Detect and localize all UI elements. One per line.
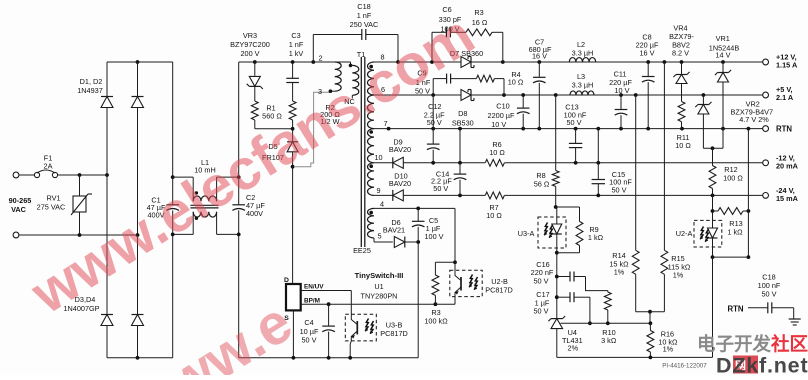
svg-text:D8: D8 (458, 109, 467, 118)
+5V rail (374, 94, 461, 96)
wire primary bottom rail (239, 357, 419, 359)
opto U2-B (450, 270, 482, 296)
svg-text:10 Ω: 10 Ω (489, 148, 505, 157)
wire snubber2 left leg (432, 79, 434, 95)
zener VR3 (254, 62, 256, 76)
svg-text:C10: C10 (496, 102, 509, 111)
capacitor C10 (522, 95, 524, 108)
wire R13 right col (747, 211, 749, 257)
svg-text:1%: 1% (614, 268, 625, 277)
diode D8 (470, 90, 472, 101)
svg-text:D1, D2: D1, D2 (80, 77, 103, 86)
svg-text:50 V: 50 V (433, 184, 448, 193)
capacitor C12 column (432, 95, 434, 129)
diode D6 (374, 241, 393, 243)
+12V rail (374, 61, 461, 63)
resistor R3 (snubber) (466, 29, 492, 36)
svg-text:3.3 µH: 3.3 µH (572, 49, 594, 58)
resistor R14 column (635, 95, 637, 250)
capacitor C14 column (459, 129, 461, 174)
svg-text:1 nF: 1 nF (357, 11, 372, 20)
svg-text:TNY280PN: TNY280PN (361, 292, 398, 301)
svg-text:16 Ω: 16 Ω (472, 18, 488, 27)
capacitor C1 (172, 62, 174, 205)
svg-text:90-265: 90-265 (9, 196, 32, 205)
wire C16 right to R10 top (586, 277, 608, 291)
capacitor C9 (446, 74, 448, 84)
diode D5 (292, 129, 294, 142)
capacitor C8 (647, 62, 649, 76)
svg-text:50 V: 50 V (533, 277, 548, 286)
svg-text:2A: 2A (44, 162, 53, 171)
wire filter bottom rails (173, 233, 194, 235)
resistor R3 100k (434, 262, 436, 275)
svg-text:BAV20: BAV20 (389, 145, 411, 154)
svg-text:16 V: 16 V (532, 52, 547, 61)
wire LED col to sec gnd (712, 257, 714, 357)
resistor R10 (607, 291, 609, 292)
capacitor C16 (557, 276, 570, 278)
capacitor C13 (575, 129, 577, 144)
svg-text:50 V: 50 V (427, 118, 442, 127)
capacitor C4 (328, 304, 330, 326)
diode D4 (132, 314, 144, 316)
svg-text:275 VAC: 275 VAC (37, 203, 66, 212)
wire snubber left leg (431, 32, 433, 62)
svg-text:4: 4 (380, 200, 384, 209)
wire AC line bottom (19, 234, 138, 236)
svg-text:10 V: 10 V (491, 120, 506, 129)
+5V terminal (763, 92, 769, 98)
resistor R7 (485, 192, 504, 199)
svg-text:BAV21: BAV21 (383, 226, 405, 235)
resistor R9 (579, 207, 581, 221)
wire clamp join (255, 128, 293, 130)
varistor RV1 (79, 175, 81, 196)
svg-text:R3: R3 (431, 308, 440, 317)
svg-text:20 mA: 20 mA (776, 161, 799, 170)
resistor R15 column (663, 62, 665, 250)
svg-text:50 V: 50 V (533, 307, 548, 316)
wire BP/M (301, 303, 455, 305)
svg-text:DZkf.net: DZkf.net (716, 354, 808, 376)
svg-text:3 kΩ: 3 kΩ (601, 336, 617, 345)
svg-text:3.3 µH: 3.3 µH (572, 80, 594, 89)
diode D1 (106, 62, 108, 97)
capacitor C7 (538, 62, 540, 77)
svg-text:1.15 A: 1.15 A (776, 60, 798, 69)
svg-text:8.2 V: 8.2 V (672, 49, 689, 58)
svg-text:50 V: 50 V (301, 336, 316, 345)
svg-text:EN/UV: EN/UV (304, 283, 324, 290)
svg-text:1%: 1% (663, 345, 674, 354)
opto U2-A LED (694, 220, 722, 247)
svg-text:10 Ω: 10 Ω (508, 78, 524, 87)
wire FB node down (556, 253, 558, 319)
svg-text:PC817D: PC817D (380, 329, 408, 338)
svg-text:100 Ω: 100 Ω (723, 173, 743, 182)
svg-text:U2-A: U2-A (676, 229, 693, 238)
wire VR2/R12 link (703, 147, 723, 149)
diode D2 (137, 62, 139, 97)
-24V rail (374, 194, 393, 196)
opto U3-A LED (538, 217, 566, 248)
wire RTN to R13 (747, 129, 749, 211)
transformer T1 primary winding inner (335, 61, 351, 63)
wire C17 right down to ref (589, 297, 591, 323)
AC input terminals (13, 172, 19, 178)
svg-text:U3-B: U3-B (386, 320, 403, 329)
wire R14 R15 join (636, 311, 665, 313)
wire to ground (772, 307, 794, 309)
transformer bias winding (367, 208, 374, 238)
svg-text:9: 9 (376, 186, 380, 195)
wire bridge top rail (107, 61, 173, 63)
svg-text:10 Ω: 10 Ω (675, 141, 691, 150)
resistor (R1 pair) (289, 101, 296, 120)
capacitor C5 (417, 208, 419, 221)
svg-text:200 V: 200 V (240, 49, 259, 58)
svg-text:BP/M: BP/M (304, 298, 320, 305)
resistor R16 (649, 323, 651, 330)
TL431 U4 (551, 318, 563, 320)
svg-text:1N4937: 1N4937 (77, 86, 103, 95)
wire EN/UV (301, 290, 352, 292)
resistor R11 (678, 102, 685, 122)
wire filter top rails (173, 176, 194, 178)
svg-text:100 kΩ: 100 kΩ (424, 317, 448, 326)
svg-text:10: 10 (374, 153, 382, 162)
node FB top (556, 206, 580, 208)
ground symbol (789, 318, 801, 320)
capacitor C18 (output) (767, 302, 769, 313)
diode D7 (470, 57, 472, 68)
resistor R6 (485, 159, 504, 166)
wire C5 return to primary gnd (417, 242, 419, 358)
svg-text:SB530: SB530 (452, 119, 474, 128)
svg-text:C18: C18 (357, 2, 370, 11)
wire bridge col2 (137, 235, 139, 315)
svg-text:1 kΩ: 1 kΩ (727, 228, 743, 237)
svg-text:250 VAC: 250 VAC (350, 20, 379, 29)
svg-text:R3: R3 (474, 8, 483, 17)
diode D10 (392, 190, 394, 201)
sec gnd rail (557, 356, 713, 358)
resistor R8 column (555, 95, 557, 171)
transformer secondary windings (368, 62, 375, 95)
svg-text:56 Ω: 56 Ω (534, 180, 550, 189)
svg-text:14 V: 14 V (715, 51, 730, 60)
+12V terminal (763, 59, 769, 65)
svg-text:U1: U1 (374, 282, 383, 291)
svg-text:10 V: 10 V (614, 86, 629, 95)
svg-text:2%: 2% (568, 344, 579, 353)
svg-text:1 kΩ: 1 kΩ (588, 233, 604, 242)
svg-text:RV1: RV1 (46, 194, 60, 203)
U1 TinySwitch (286, 284, 301, 310)
svg-text:RTN: RTN (727, 305, 743, 314)
zener VR2 (702, 95, 704, 105)
wire R3 top link (435, 261, 455, 263)
capacitor C18 (Y-cap) (312, 35, 314, 63)
svg-text:EE25: EE25 (353, 246, 371, 255)
svg-text:D: D (284, 277, 289, 284)
resistor R1 (254, 86, 256, 101)
svg-text:C4: C4 (304, 318, 313, 327)
diode D9 (392, 157, 394, 168)
svg-text:50 V: 50 V (611, 185, 626, 194)
transformer core (360, 57, 362, 247)
svg-text:C3: C3 (291, 31, 300, 40)
capacitor C17 (557, 296, 570, 298)
svg-text:1 nF: 1 nF (289, 40, 304, 49)
svg-text:2.1 A: 2.1 A (776, 93, 794, 102)
svg-text:电子开发社区: 电子开发社区 (697, 334, 808, 355)
svg-text:RTN: RTN (776, 124, 792, 133)
opto U3-B (345, 314, 376, 341)
svg-text:400V: 400V (246, 209, 263, 218)
RTN rail (374, 128, 763, 130)
wire drain (292, 167, 294, 284)
svg-text:2200 µF: 2200 µF (488, 111, 515, 120)
svg-text:2: 2 (318, 54, 322, 63)
svg-text:10 Ω: 10 Ω (486, 211, 502, 220)
diode D3 (101, 314, 113, 316)
svg-text:4.7 V 2%: 4.7 V 2% (739, 115, 769, 124)
wire snubber2 right leg (494, 78, 504, 80)
svg-text:TinySwitch-III: TinySwitch-III (355, 271, 404, 280)
svg-text:BAV20: BAV20 (389, 179, 411, 188)
capacitor C15 (597, 129, 599, 180)
svg-text:VR1: VR1 (716, 34, 730, 43)
resistor R4 (476, 75, 494, 82)
svg-text:U3-A: U3-A (518, 229, 535, 238)
wire bridge bottom rail (107, 357, 173, 359)
bias rail pin4 (374, 207, 455, 209)
inductor L1 common-mode choke (192, 177, 194, 201)
wire AC line top (19, 174, 35, 176)
svg-text:PI-4416-122007: PI-4416-122007 (662, 363, 707, 370)
svg-text:50 V: 50 V (761, 289, 776, 298)
node FB bottom (557, 252, 580, 254)
zener VR4 (681, 62, 683, 75)
wire bridge col1 (106, 175, 108, 315)
inductor L3 (570, 91, 594, 95)
capacitor C2 (238, 62, 240, 205)
svg-text:5: 5 (377, 232, 381, 241)
svg-text:VAC: VAC (11, 205, 27, 214)
svg-text:15 mA: 15 mA (776, 194, 799, 203)
svg-text:VR3: VR3 (243, 31, 257, 40)
resistor R13 (712, 195, 714, 211)
inductor L2 (569, 58, 595, 62)
zener VR1 (722, 62, 724, 73)
svg-text:100 V: 100 V (424, 232, 443, 241)
svg-text:PC817D: PC817D (485, 285, 513, 294)
transformer T1 primary winding 2-3 (335, 62, 342, 91)
wire snubber right leg (492, 31, 503, 33)
wire U1 source (292, 310, 294, 357)
svg-text:50 V: 50 V (566, 118, 581, 127)
wire AC top to bridge (58, 174, 107, 176)
wire primary top rail to T1 (239, 61, 335, 63)
svg-text:1%: 1% (673, 271, 684, 280)
svg-text:1 kV: 1 kV (289, 49, 304, 58)
svg-text:16 V: 16 V (639, 49, 654, 58)
fuse F1 (34, 172, 39, 177)
ref line (561, 322, 651, 324)
wire pin3 gray route (295, 92, 329, 167)
resistor R12 (712, 148, 714, 165)
-12V rail (374, 162, 393, 164)
capacitor C6 (445, 27, 447, 37)
capacitor C11 (620, 95, 622, 109)
svg-text:7: 7 (383, 119, 387, 128)
svg-text:BZY97C200: BZY97C200 (230, 40, 270, 49)
watermark (20, 3, 486, 327)
capacitor C3 (292, 62, 294, 78)
